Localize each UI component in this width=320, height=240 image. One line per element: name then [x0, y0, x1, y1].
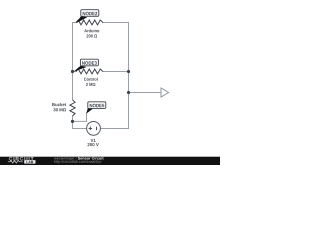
- node NODE5 text: [90, 104, 105, 107]
- wire top rail left segment: [72, 22, 77, 24]
- footer logo LAB: [27, 161, 34, 163]
- footer logo LAB box: [24, 160, 35, 164]
- wire bottom rail left: [72, 128, 86, 130]
- label V1: [91, 139, 96, 142]
- junction dot middle-left: [71, 70, 74, 73]
- node NODE2 pointer: [76, 16, 87, 23]
- label Arduino: [84, 29, 99, 32]
- wire bottom rail right: [101, 128, 129, 130]
- node NODE5 box: [88, 102, 106, 109]
- footer credit line1a: [54, 157, 77, 161]
- label 200 V: [87, 143, 98, 146]
- footer logo CIRCUIT: [9, 157, 33, 160]
- junction dot middle-right: [127, 70, 130, 73]
- label Control: [84, 78, 98, 81]
- resistor R Control zigzag: [76, 69, 103, 74]
- wire output rail: [129, 92, 162, 94]
- footer credit line2: [54, 160, 101, 163]
- node NODE3 text: [82, 61, 97, 64]
- output flag arrow: [161, 88, 169, 97]
- footer credit line1b: [78, 157, 104, 160]
- label Bucket: [52, 103, 66, 106]
- wire right rail: [128, 22, 130, 129]
- junction dot node5: [71, 120, 74, 123]
- wire left rail: [72, 22, 74, 100]
- node NODE3 pointer: [73, 66, 86, 72]
- wire middle rail left segment: [72, 71, 77, 73]
- wire middle rail right segment: [103, 71, 129, 73]
- junction dot output: [127, 91, 130, 94]
- voltage source plus sign: [89, 127, 93, 130]
- node NODE3 box: [80, 59, 98, 66]
- node NODE2 text: [83, 12, 98, 15]
- wire node5 elbow: [72, 113, 87, 121]
- label 30 Mohm: [53, 108, 66, 111]
- label 2 Mohm: [86, 83, 95, 86]
- footer logo zigzag: [8, 160, 23, 163]
- resistor R Bucket zigzag vertical: [70, 100, 75, 116]
- wire top rail right segment: [103, 22, 129, 24]
- node NODE5 pointer: [86, 108, 93, 114]
- footer bar: [0, 157, 220, 165]
- label 200 ohm: [87, 34, 98, 37]
- voltage source minus bar: [96, 127, 98, 130]
- voltage source V1 circle: [87, 121, 101, 135]
- node NODE2 box: [81, 10, 99, 17]
- resistor R Arduino zigzag: [76, 20, 103, 25]
- wire left rail lower: [72, 116, 74, 129]
